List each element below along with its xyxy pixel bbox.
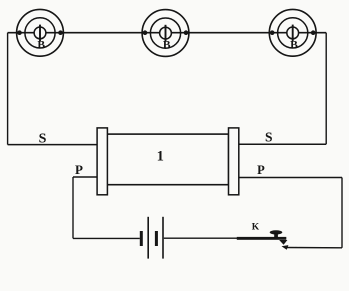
wire P left vertical [72,177,74,238]
svg-text:B: B [37,39,45,51]
wire arrow horizontal [287,247,343,249]
arrowhead [282,245,289,250]
lamp B2 [142,10,189,57]
battery [140,217,163,259]
svg-text:B: B [163,40,171,52]
switch K [237,230,288,245]
wire S right [239,143,327,145]
resistance box right cap [229,128,239,195]
wire battery to key [164,237,237,239]
wire left vertical [7,33,9,145]
wire right vertical upper [325,33,327,145]
wire top horizontal [8,32,327,34]
svg-text:1: 1 [157,149,164,165]
wire P left stub [73,176,97,178]
wire P right [239,177,343,179]
lamp B1 [17,9,64,56]
wire bottom left horizontal [73,237,140,239]
resistance box 1 body [107,134,229,185]
svg-text:K: K [252,222,260,232]
wire S left [8,144,97,146]
svg-text:P: P [75,162,83,177]
svg-text:S: S [265,130,273,145]
wire right vertical lower [341,178,343,248]
svg-text:P: P [257,163,265,177]
lamp B3 [269,9,316,56]
svg-text:S: S [39,131,47,146]
svg-text:B: B [290,39,298,51]
resistance box left cap [97,128,107,195]
